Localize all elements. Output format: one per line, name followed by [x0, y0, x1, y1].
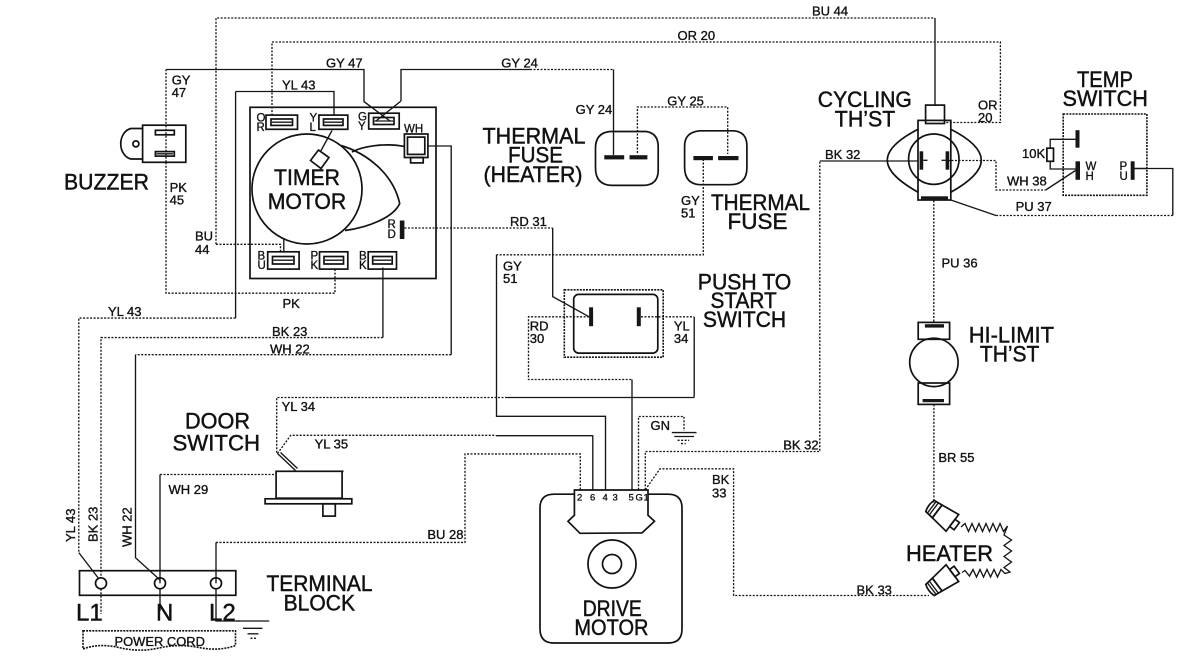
svg-text:3: 3 [613, 493, 618, 504]
timer terminal YL [319, 115, 348, 129]
svg-text:SWITCH: SWITCH [1063, 86, 1148, 111]
svg-text:BK 32: BK 32 [825, 147, 860, 162]
wire RD30 vertical to motor pin5 [631, 380, 633, 490]
label TEMP SWITCH [1063, 67, 1148, 111]
wire YL35 [278, 435, 497, 453]
wire labels [63, 4, 1052, 598]
timer wh curve [352, 145, 404, 152]
svg-text:BR 55: BR 55 [938, 450, 974, 465]
svg-text:BUZZER: BUZZER [64, 170, 149, 195]
drive motor pulley [588, 540, 636, 588]
wire BK33 [645, 469, 929, 596]
wire YL43 left vertical [235, 92, 237, 319]
svg-text:6: 6 [590, 493, 595, 504]
timer WH terminal [404, 134, 428, 163]
wire BU44 top [216, 18, 935, 244]
svg-text:5: 5 [629, 493, 634, 504]
svg-text:TIMER: TIMER [274, 165, 340, 190]
temp switch PU pin [1131, 161, 1135, 180]
timer BU inner wire [283, 239, 285, 253]
thermal fuse 2 left pad [693, 156, 713, 160]
svg-text:FUSE: FUSE [728, 209, 788, 234]
svg-text:PK: PK [283, 296, 301, 311]
svg-text:BK 23: BK 23 [272, 324, 307, 339]
timer belt [341, 146, 400, 231]
svg-text:PU 37: PU 37 [1016, 199, 1052, 214]
timer terminal PK [320, 252, 348, 269]
wire GY25 [637, 107, 727, 154]
wire BK23 vertical from timer BK terminal [382, 268, 384, 338]
svg-text:TH’ST: TH’ST [835, 106, 896, 131]
svg-text:K: K [359, 260, 367, 272]
svg-text:BLOCK: BLOCK [284, 591, 355, 616]
wire PU37 vertical to temp switch [1135, 169, 1173, 216]
wire WH29 [159, 475, 161, 584]
svg-text:30: 30 [530, 331, 544, 346]
wire WH22 from timer WH terminal [428, 146, 451, 355]
label HI-LIMIT TH'ST [969, 323, 1055, 367]
wire BU44 vertical to cycling thermostat [934, 18, 936, 106]
push-to-start left pin [589, 307, 593, 326]
svg-text:WH 22: WH 22 [120, 507, 135, 547]
wire BK32 [645, 161, 820, 490]
wire WH22 lower [136, 354, 452, 356]
terminal block [80, 571, 236, 614]
label CYCLING TH'ST [818, 87, 912, 131]
wire OR20 [272, 42, 1000, 123]
hi-limit thermostat [910, 322, 958, 404]
timer RD contact bar [400, 221, 405, 240]
svg-text:10K: 10K [1022, 146, 1045, 161]
svg-text:WH 29: WH 29 [169, 482, 209, 497]
timer terminal OR [266, 115, 298, 129]
wire BK23 [101, 338, 383, 578]
svg-text:L2: L2 [209, 600, 236, 627]
door switch [265, 453, 352, 517]
wire GY24 diagonal at timer [376, 101, 401, 121]
cycling thermostat left contact [920, 151, 924, 169]
label TERMINAL BLOCK [267, 571, 373, 616]
heater lower plug [923, 561, 963, 599]
wire WH38 from cycling thermostat [948, 161, 1046, 191]
timer terminal BU [268, 252, 299, 269]
wire BU28 [215, 542, 217, 583]
svg-text:BU 44: BU 44 [812, 4, 848, 19]
power cord [83, 631, 236, 650]
wire YL34 from push-to-start right pin [641, 316, 694, 318]
svg-text:1: 1 [644, 493, 649, 504]
wire GY47 [165, 70, 167, 163]
svg-text:N: N [156, 600, 173, 627]
wire GY51 solid part to motor pin4 [497, 255, 606, 490]
svg-text:BK 33: BK 33 [857, 583, 892, 598]
svg-text:GY 47: GY 47 [326, 56, 363, 71]
thermal fuse 1 left pad [604, 155, 624, 159]
svg-text:U: U [1120, 171, 1128, 183]
svg-text:HEATER: HEATER [906, 541, 993, 566]
drive motor [540, 490, 682, 643]
wire YL34 vertical [693, 317, 695, 398]
temp switch box [1047, 114, 1147, 195]
wire PU37 [951, 200, 996, 216]
wire PU37 dotted [996, 215, 1173, 217]
cycling thermostat bottom bar [921, 196, 948, 200]
wire YL43 diagonal to L1 [79, 553, 99, 579]
svg-text:TH’ST: TH’ST [980, 342, 1040, 367]
svg-text:GN: GN [651, 418, 671, 433]
svg-text:YL 34: YL 34 [282, 399, 316, 414]
wire PK45 [166, 162, 335, 293]
svg-text:GY 24: GY 24 [576, 102, 613, 117]
thermal fuse 2 right pad [718, 156, 738, 160]
wire YL43 top segment [236, 92, 334, 116]
timer terminal BK [368, 252, 396, 269]
push to start switch [564, 290, 663, 357]
svg-text:20: 20 [978, 110, 992, 125]
label PUSH TO START SWITCH [698, 270, 792, 333]
thermal fuse 2 component [685, 131, 747, 185]
svg-text:U: U [258, 260, 266, 272]
label THERMAL FUSE (HEATER) [483, 124, 586, 188]
heater [923, 497, 1012, 599]
wire BK32 to cycling thermostat [820, 160, 918, 162]
svg-text:D: D [388, 229, 396, 241]
svg-text:SWITCH: SWITCH [703, 307, 786, 332]
wire GY24 dotted part [530, 69, 614, 71]
wire RD30 [529, 317, 633, 380]
svg-text:GY 25: GY 25 [667, 94, 704, 109]
svg-text:L: L [310, 122, 317, 134]
wire GY24 [401, 70, 530, 102]
heater upper plug [923, 497, 963, 535]
wire WH38 diagonal [1046, 171, 1076, 191]
svg-text:POWER CORD: POWER CORD [115, 634, 205, 649]
ground symbol at L2 [237, 621, 270, 638]
wire YL35 vertical to motor pin6 [592, 435, 594, 489]
svg-text:H: H [1086, 171, 1094, 183]
wire WH22 vertical to N [136, 355, 161, 580]
temp switch WH pin [1076, 161, 1081, 180]
svg-text:34: 34 [674, 331, 688, 346]
cycling thermostat right contact [946, 151, 950, 169]
svg-text:WH: WH [404, 124, 423, 136]
push-to-start right pin [637, 307, 641, 326]
thermal fuse heater component [596, 132, 659, 186]
wire L2 ground stub [216, 589, 240, 621]
svg-text:2: 2 [577, 493, 582, 504]
thermal fuse 1 right pad [630, 155, 648, 159]
svg-text:WH 22: WH 22 [270, 342, 310, 357]
timer cam wire [321, 131, 333, 152]
svg-text:WH 38: WH 38 [1007, 174, 1047, 189]
wire BU44 stub to timer BU terminal [216, 244, 281, 252]
label DOOR SWITCH [173, 409, 261, 456]
ground symbol GN [672, 433, 697, 444]
svg-text:BK 32: BK 32 [783, 438, 818, 453]
svg-text:K: K [311, 260, 319, 272]
svg-text:MOTOR: MOTOR [574, 615, 648, 640]
timer motor box [250, 107, 436, 278]
drive motor connector [568, 490, 655, 533]
wire YL43 lower [79, 318, 236, 552]
svg-text:Y: Y [358, 121, 366, 133]
svg-text:SWITCH: SWITCH [173, 431, 261, 456]
svg-text:YL 43: YL 43 [108, 304, 142, 319]
svg-text:PU 36: PU 36 [942, 256, 978, 271]
svg-text:L1: L1 [76, 600, 103, 627]
svg-text:G: G [636, 493, 643, 504]
svg-text:RD 31: RD 31 [510, 214, 547, 229]
buzzer [121, 125, 186, 162]
svg-text:4: 4 [603, 493, 608, 504]
wire PU36 [933, 201, 935, 323]
heater zigzag element [961, 524, 1012, 578]
svg-text:YL 43: YL 43 [282, 77, 316, 92]
wire YL34 long horizontal [507, 397, 694, 399]
timer motor circle [252, 134, 362, 244]
door switch lever [278, 453, 298, 471]
svg-text:51: 51 [681, 206, 695, 221]
svg-text:BU 28: BU 28 [427, 527, 463, 542]
wire BR55 [933, 404, 935, 503]
wire RD31 dotted [405, 227, 553, 229]
svg-text:BK 23: BK 23 [86, 507, 101, 542]
svg-text:YL 35: YL 35 [315, 437, 349, 452]
wire GY51 from thermal fuse [497, 159, 704, 255]
wire RD31 vertical and diagonal to push-to-start [553, 228, 589, 317]
svg-text:R: R [257, 122, 265, 134]
timer terminal GY [369, 113, 400, 129]
svg-text:(HEATER): (HEATER) [484, 162, 583, 187]
svg-text:OR 20: OR 20 [678, 28, 716, 43]
temp switch top pin [1076, 130, 1080, 148]
svg-text:45: 45 [170, 193, 184, 208]
svg-text:33: 33 [712, 486, 726, 501]
svg-text:51: 51 [503, 271, 517, 286]
svg-text:MOTOR: MOTOR [268, 189, 347, 214]
resistor 10K [1050, 139, 1063, 148]
wire GN ground wire [639, 417, 685, 490]
label THERMAL FUSE [711, 190, 810, 234]
svg-text:47: 47 [172, 85, 186, 100]
svg-text:44: 44 [195, 242, 209, 257]
svg-text:GY 24: GY 24 [501, 56, 538, 71]
timer cam [311, 150, 330, 169]
cycling thermostat [887, 105, 981, 200]
svg-text:YL 43: YL 43 [63, 509, 78, 543]
